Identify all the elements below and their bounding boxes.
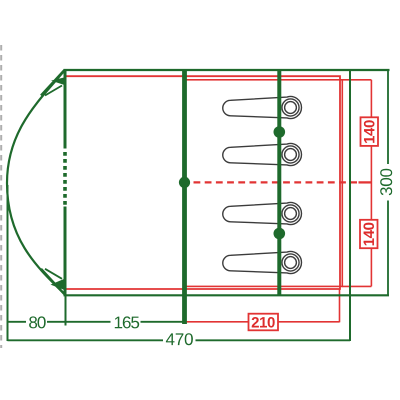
- label 470: [166, 333, 193, 345]
- dim tick porch tip: [7, 185, 9, 341]
- sleeping pad 3: [223, 203, 302, 225]
- dim tick tent left: [65, 296, 67, 326]
- dim line 80: [8, 321, 27, 323]
- rear pole line: [277, 69, 281, 296]
- red extension bottom to 140 dim: [342, 285, 371, 287]
- bedroom red rectangle: [186, 80, 343, 287]
- tent left edge solid lower: [64, 207, 67, 297]
- tent left edge door dashed: [63, 152, 67, 207]
- cropped edge dashed line: [0, 45, 2, 348]
- porch flag top: [51, 77, 65, 85]
- label 80: [29, 316, 46, 328]
- label 140 upper: [361, 117, 379, 146]
- pole hub dot lower: [274, 228, 286, 240]
- dim line 300: [387, 70, 389, 164]
- porch curve: [7, 70, 65, 295]
- pole hub dot center: [179, 177, 190, 188]
- label 210: [249, 314, 279, 331]
- red center dashed line: [194, 181, 358, 183]
- porch flag bottom: [51, 279, 65, 290]
- red 210 dim line: [186, 321, 249, 323]
- dim line 165: [66, 321, 111, 323]
- red extension top to 140 dim: [342, 79, 371, 81]
- pole hub dot upper: [274, 126, 286, 138]
- red 140 dim line lower: [370, 248, 372, 286]
- label 165: [115, 316, 139, 328]
- porch seam top: [41, 70, 65, 96]
- tent top edge: [64, 69, 390, 71]
- inner tent red outline: [65, 76, 341, 289]
- tent left edge solid upper: [64, 69, 67, 149]
- dim line 470: [8, 339, 164, 341]
- label 300: [380, 169, 392, 196]
- porch seam bottom upper: [45, 269, 62, 279]
- sleeping pad 4: [223, 252, 302, 274]
- porch seam bottom: [41, 269, 65, 295]
- sleeping pad 2: [223, 144, 302, 166]
- red 210 dim tick: [339, 289, 341, 322]
- porch seam top lower: [45, 86, 62, 96]
- label 140 lower: [360, 220, 378, 248]
- sleeping pad 1: [223, 97, 302, 119]
- divider pole line: [182, 69, 187, 324]
- tent bottom edge: [64, 294, 390, 296]
- red 140 dim line upper: [370, 80, 372, 118]
- tent right edge + 470 tick: [349, 69, 351, 341]
